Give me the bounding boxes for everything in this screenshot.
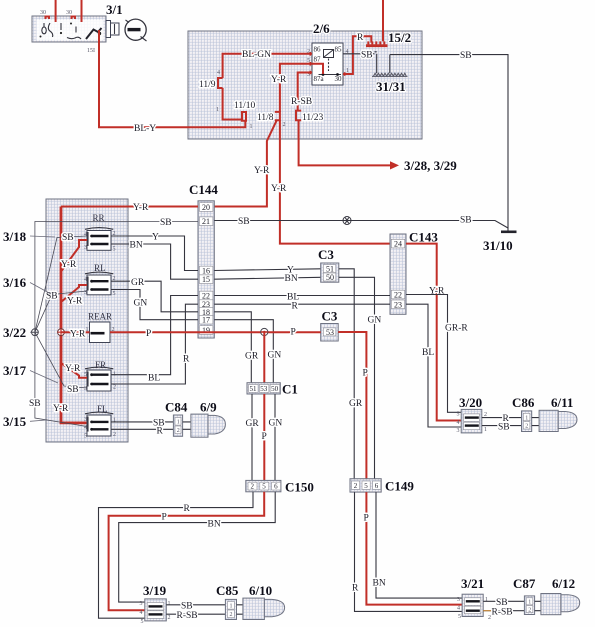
junction P (circled) xyxy=(261,328,268,335)
wire Y-R C143 24 to 3/20 xyxy=(406,244,461,421)
svg-text:22: 22 xyxy=(394,291,402,300)
svg-text:C150: C150 xyxy=(285,480,314,495)
switch FR (3/17) xyxy=(85,367,113,391)
svg-text:15: 15 xyxy=(202,275,210,284)
svg-text:FL: FL xyxy=(97,404,108,414)
svg-text:2: 2 xyxy=(525,424,528,430)
C144 pin 16 xyxy=(199,266,213,275)
C1 pin 50 xyxy=(270,385,280,394)
C150 pin 6 xyxy=(272,482,281,491)
svg-text:6/9: 6/9 xyxy=(200,400,217,415)
svg-text:17: 17 xyxy=(202,316,210,325)
wire BN C149 6 to 3/21 xyxy=(376,492,462,598)
C3 connector (pin 53) xyxy=(321,324,339,342)
wire SB splice to FR xyxy=(35,332,87,388)
svg-text:4: 4 xyxy=(217,70,220,76)
fuse 11/9 xyxy=(218,78,223,88)
C150 pin 5 xyxy=(260,482,269,491)
ignition switch 3/1 body xyxy=(32,16,106,42)
svg-text:Y-R: Y-R xyxy=(133,203,149,213)
wire BN C150 6 to 3/19 xyxy=(119,492,276,602)
C1 pin 51 xyxy=(249,385,259,394)
svg-text:P: P xyxy=(291,328,296,338)
svg-text:C143: C143 xyxy=(409,230,438,245)
svg-text:3: 3 xyxy=(84,245,87,251)
svg-text:Y-R: Y-R xyxy=(271,75,287,85)
svg-text:87: 87 xyxy=(314,56,322,64)
svg-text:P: P xyxy=(162,513,167,523)
svg-text:C1: C1 xyxy=(282,382,298,397)
svg-text:5: 5 xyxy=(141,619,144,625)
wire BL C144 22 to C143 22 xyxy=(214,295,390,297)
wire battery feed into ignition (right) xyxy=(81,0,83,22)
ground 31/31 xyxy=(372,73,408,76)
svg-text:SB: SB xyxy=(67,385,79,395)
svg-text:87a: 87a xyxy=(314,75,325,83)
wire BL-Y from ignition 15 to fuse 11/10 xyxy=(99,30,245,127)
svg-text:3/1: 3/1 xyxy=(106,2,123,17)
red trunk Y-R in left box xyxy=(61,207,88,423)
svg-text:3/20: 3/20 xyxy=(459,395,482,410)
svg-text:3/19: 3/19 xyxy=(143,583,167,598)
svg-text:SB: SB xyxy=(29,399,41,409)
RR pin numbers xyxy=(84,231,116,253)
wire GN C1 to C150 6 xyxy=(274,394,276,480)
wire BL C143 23 to 3/20 xyxy=(406,304,461,427)
svg-text:SB: SB xyxy=(498,423,510,433)
R-SB orange segment xyxy=(483,610,494,612)
svg-text:5: 5 xyxy=(113,291,116,297)
svg-text:GR: GR xyxy=(245,352,259,362)
svg-text:2: 2 xyxy=(177,428,180,434)
C149 pin 5 xyxy=(362,481,370,490)
svg-text:P: P xyxy=(363,369,368,379)
ignition switch 3/1 internal contacts xyxy=(40,23,102,40)
ground 31/10 xyxy=(501,231,517,234)
svg-text:BL-GN: BL-GN xyxy=(242,50,271,60)
svg-text:2: 2 xyxy=(168,615,171,621)
ignition connector tab xyxy=(106,21,119,38)
key symbol xyxy=(125,19,146,41)
svg-text:R-SB: R-SB xyxy=(177,611,198,621)
svg-text:24: 24 xyxy=(394,240,402,249)
wire Y-R fuse 11/8 to C143 pin24 xyxy=(280,120,390,243)
svg-text:4: 4 xyxy=(457,606,460,612)
wire GN C144 17 to C1 50 xyxy=(214,320,273,383)
fuse/relay central box (stippled) xyxy=(188,31,422,139)
wire P C1 to C150 5 xyxy=(263,394,265,480)
C143 pin 24 xyxy=(391,239,404,248)
svg-text:2: 2 xyxy=(113,432,116,438)
3/19 pin numbers xyxy=(140,601,171,625)
relay 2/6 pin numbers xyxy=(307,49,349,78)
svg-text:2: 2 xyxy=(113,385,116,391)
svg-text:BN: BN xyxy=(208,520,221,530)
svg-text:85: 85 xyxy=(335,46,343,54)
switch 3/20 xyxy=(461,409,482,433)
wire fuse 11/9 to fuse 11/10 xyxy=(223,88,242,120)
wire BL-GN relay 86 to fuse 11/9 xyxy=(223,54,312,78)
links C87 to 6/12 xyxy=(535,601,541,610)
wire R FR to C144 23 xyxy=(111,304,198,384)
svg-text:BL: BL xyxy=(148,374,160,384)
svg-text:5: 5 xyxy=(364,482,368,490)
svg-text:15I: 15I xyxy=(87,48,95,54)
svg-text:REAR: REAR xyxy=(88,312,112,322)
svg-text:6: 6 xyxy=(375,482,379,490)
switch RR (3/18) xyxy=(85,228,113,251)
wire P C149 5 to 3/21 xyxy=(366,492,462,604)
motor 6/10 xyxy=(243,598,285,619)
motor 6/9 xyxy=(191,414,226,437)
RL pin numbers xyxy=(84,276,116,297)
svg-text:C87: C87 xyxy=(513,576,536,591)
svg-text:BN: BN xyxy=(373,579,386,589)
svg-text:4: 4 xyxy=(84,232,87,238)
wire GR-R C143 22 to 3/20 xyxy=(406,295,461,413)
svg-text:P: P xyxy=(262,432,267,442)
svg-text:86: 86 xyxy=(314,46,322,54)
switch 3/21 xyxy=(462,594,483,616)
ignition terminal clip 30 (right) xyxy=(72,17,76,20)
C144 pin 23 xyxy=(199,300,213,309)
wire SB splice to RR xyxy=(35,236,87,332)
wire GR C3 51 to C149 2 xyxy=(339,269,354,479)
wire Y-R trunk to C144 20 xyxy=(61,206,198,208)
wire R C150 2 to 3/19 xyxy=(99,492,254,618)
svg-text:SB: SB xyxy=(46,292,58,302)
svg-text:R-SB: R-SB xyxy=(291,97,312,107)
wire SB C144 21 to ground 31/10 xyxy=(214,221,508,229)
wire R C144 23 to C143 23 xyxy=(214,303,390,305)
svg-text:53: 53 xyxy=(260,385,268,393)
svg-text:5: 5 xyxy=(458,614,461,620)
wire Y-R fuse 11/8 to C144 pin20 xyxy=(214,120,276,206)
wire Y RR to C144 16 xyxy=(111,236,198,271)
svg-text:Y-R: Y-R xyxy=(70,330,86,340)
junction Y-R trunk splice xyxy=(58,329,65,336)
svg-text:R: R xyxy=(184,504,191,514)
svg-text:11/8: 11/8 xyxy=(257,113,274,123)
svg-text:2: 2 xyxy=(230,612,233,618)
motor 6/11 xyxy=(539,410,577,431)
leader 3/16 xyxy=(30,283,51,295)
wire GR RL to C144 18 xyxy=(111,281,198,312)
wire SB splice to FL xyxy=(35,332,87,426)
svg-text:2: 2 xyxy=(354,482,358,490)
3/20 pin numbers xyxy=(457,412,488,435)
wire R relay 30 to fuse 15/2 xyxy=(343,36,371,74)
wire Y-R relay 87 to fuse 11/8 xyxy=(280,64,312,112)
svg-text:4: 4 xyxy=(457,420,460,426)
leader 3/17 xyxy=(30,371,58,384)
svg-text:20: 20 xyxy=(202,203,210,212)
leader 3/22 xyxy=(30,331,32,333)
svg-text:1: 1 xyxy=(528,600,531,606)
svg-text:BN: BN xyxy=(130,241,143,251)
C144 connector column xyxy=(198,201,214,338)
svg-text:1: 1 xyxy=(168,601,171,607)
wire SB to ground 31/10 (upper run) xyxy=(390,55,508,231)
svg-text:BL-Y: BL-Y xyxy=(134,124,156,134)
svg-text:4: 4 xyxy=(84,277,87,283)
svg-text:51: 51 xyxy=(250,385,258,393)
svg-text:C85: C85 xyxy=(216,583,239,598)
wire BL FR to C144 22 xyxy=(111,296,198,375)
relay pin clips xyxy=(310,52,344,76)
C143 pin 22 xyxy=(391,290,404,299)
svg-text:31/10: 31/10 xyxy=(483,238,513,253)
svg-text:3/15: 3/15 xyxy=(3,414,27,429)
links C85 to 6/10 xyxy=(237,605,243,614)
C143 pin 23 xyxy=(391,300,404,309)
wire SB 3/21 to C87 xyxy=(483,600,524,602)
motor 6/12 xyxy=(541,594,580,615)
svg-text:Y-R: Y-R xyxy=(254,166,270,176)
wire R 3/20 to C86 xyxy=(482,417,522,419)
3/21 pin numbers xyxy=(457,597,491,621)
svg-text:30: 30 xyxy=(66,10,72,16)
svg-text:SB: SB xyxy=(181,602,193,612)
svg-text:1: 1 xyxy=(113,418,116,424)
svg-text:R: R xyxy=(352,584,359,594)
svg-text:3/18: 3/18 xyxy=(3,229,27,244)
svg-text:3: 3 xyxy=(457,597,460,603)
svg-text:R: R xyxy=(292,302,299,312)
wire P REAR to C3 53 xyxy=(110,331,321,333)
svg-text:1: 1 xyxy=(484,427,487,433)
wire Y-R branch to RL xyxy=(61,285,87,302)
C144 pin 22 xyxy=(199,291,213,300)
svg-text:C149: C149 xyxy=(385,479,414,494)
svg-text:Y-R: Y-R xyxy=(271,184,287,194)
svg-text:Y-R: Y-R xyxy=(67,297,83,307)
wire Y C144 16 to C3 51 xyxy=(214,269,320,271)
svg-text:50: 50 xyxy=(326,273,334,282)
wire R-SB 3/19 to C85 xyxy=(166,613,225,615)
svg-text:C3: C3 xyxy=(318,247,334,262)
svg-text:P: P xyxy=(146,329,151,339)
svg-text:3: 3 xyxy=(84,417,87,423)
svg-text:3: 3 xyxy=(457,428,460,434)
svg-text:R: R xyxy=(183,355,190,365)
svg-text:2: 2 xyxy=(283,122,286,128)
svg-text:GN: GN xyxy=(269,419,283,429)
C150 pin 2 xyxy=(248,482,257,491)
switch 3/19 xyxy=(145,599,167,621)
svg-text:5: 5 xyxy=(262,483,266,491)
svg-text:1: 1 xyxy=(216,107,219,113)
svg-text:C84: C84 xyxy=(165,400,188,415)
fuse 11/23 xyxy=(296,111,301,121)
relay 2/6 body xyxy=(312,43,343,85)
wire R-SB relay 87a to fuse 11/23 xyxy=(298,73,312,111)
switch RL (3/16) xyxy=(85,272,113,295)
svg-text:SB: SB xyxy=(160,218,172,228)
svg-text:C3: C3 xyxy=(322,309,338,324)
splice node SB (circled) xyxy=(32,329,39,336)
C85 connector xyxy=(225,599,236,619)
wire SB splice to C144 21 xyxy=(35,222,198,333)
FL pin numbers xyxy=(84,417,116,440)
svg-text:C86: C86 xyxy=(512,395,535,410)
wire fuse 11/23 to 3/28,3/29 arrow xyxy=(299,120,390,165)
wire SB 3/20 to C86 xyxy=(482,425,522,427)
wire Y-R branch to RR xyxy=(61,240,87,272)
fuse 11/8 xyxy=(275,112,280,120)
wire GN RL to C144 17 xyxy=(111,290,198,320)
C3 connector (pins 51/50) xyxy=(321,263,339,282)
svg-text:5: 5 xyxy=(84,434,87,440)
C143 connector column xyxy=(390,234,406,314)
svg-text:6/12: 6/12 xyxy=(552,576,575,591)
svg-text:2/6: 2/6 xyxy=(313,21,330,36)
svg-text:BL: BL xyxy=(422,348,434,358)
svg-text:3/22: 3/22 xyxy=(3,325,26,340)
C150 connector xyxy=(246,480,281,491)
wire R C149 2 to 3/21 xyxy=(355,492,463,611)
svg-text:31/31: 31/31 xyxy=(376,79,406,94)
svg-text:3/28, 3/29: 3/28, 3/29 xyxy=(404,158,457,173)
arrowhead to 3/28,3/29 xyxy=(390,161,399,169)
svg-text:2: 2 xyxy=(251,483,255,491)
svg-text:16: 16 xyxy=(202,267,210,276)
svg-text:GN: GN xyxy=(134,299,148,309)
wire Y-R junction to REAR xyxy=(61,331,90,333)
C149 pin 2 xyxy=(352,481,360,490)
svg-text:11/23: 11/23 xyxy=(302,113,324,123)
svg-text:3/17: 3/17 xyxy=(3,363,27,378)
C144 pin 20 xyxy=(199,203,213,212)
fuse 11/10 xyxy=(241,112,246,121)
svg-text:C144: C144 xyxy=(189,182,218,197)
svg-text:SB: SB xyxy=(361,51,373,61)
svg-text:3: 3 xyxy=(140,601,143,607)
switch REAR (3/22) xyxy=(90,322,111,343)
svg-text:30: 30 xyxy=(335,75,343,83)
svg-text:SB: SB xyxy=(496,598,508,608)
C3 pin 51 xyxy=(323,265,336,274)
fuse 15/2 xyxy=(366,41,388,47)
svg-text:Y: Y xyxy=(152,233,159,243)
wire R-SB 3/21 to C87 xyxy=(483,610,524,612)
links C86 to 6/11 xyxy=(532,418,539,426)
wire SB relay 85 to ground 31/31 xyxy=(343,52,377,73)
svg-text:50: 50 xyxy=(271,385,279,393)
C1 connector xyxy=(247,383,280,394)
C144 pin 15 xyxy=(199,275,213,284)
svg-text:GR: GR xyxy=(131,278,145,288)
svg-text:Y-R: Y-R xyxy=(61,260,77,270)
svg-text:6: 6 xyxy=(274,483,278,491)
wire battery feed into ignition (left) xyxy=(55,0,57,22)
svg-text:3: 3 xyxy=(84,386,87,392)
svg-text:6/10: 6/10 xyxy=(249,583,272,598)
svg-text:3/16: 3/16 xyxy=(3,275,27,290)
wire GR C144 18 to C1 51 xyxy=(214,312,251,383)
C149 connector xyxy=(350,479,381,492)
svg-text:SB: SB xyxy=(238,217,250,227)
C1 pin 53 xyxy=(259,385,269,394)
wire P junction to C1 53 xyxy=(263,332,265,383)
wire GN C3 50 to C149 6 xyxy=(339,277,375,478)
wire SB 3/19 to C85 xyxy=(166,604,225,606)
svg-text:GR: GR xyxy=(246,419,260,429)
svg-text:5: 5 xyxy=(457,412,460,418)
svg-text:Y-R: Y-R xyxy=(65,364,81,374)
svg-text:4: 4 xyxy=(140,610,143,616)
svg-text:1: 1 xyxy=(177,420,180,426)
svg-text:53: 53 xyxy=(326,328,334,337)
svg-text:5: 5 xyxy=(113,247,116,253)
svg-text:R: R xyxy=(357,33,364,43)
wire BN RR to C144 15 xyxy=(111,244,198,279)
svg-text:FR: FR xyxy=(95,360,106,370)
svg-text:19: 19 xyxy=(202,326,210,335)
C144 pin 21 xyxy=(199,217,213,226)
C84 connector xyxy=(173,415,182,436)
svg-text:21: 21 xyxy=(202,217,210,226)
svg-text:GN: GN xyxy=(268,351,282,361)
C87 connector xyxy=(524,596,534,615)
svg-text:1: 1 xyxy=(230,604,233,610)
wire P C3 53 to C149 5 xyxy=(338,332,366,479)
svg-text:SB: SB xyxy=(460,216,472,226)
wire Y-R branch to FR xyxy=(61,363,87,378)
wire BN C144 15 to C3 50 xyxy=(214,277,320,279)
svg-text:11/10: 11/10 xyxy=(234,101,256,111)
links C84 to 6/9 xyxy=(183,422,191,429)
svg-text:SB: SB xyxy=(62,233,74,243)
C3 pin 53 xyxy=(323,328,336,337)
C144 pin 18 xyxy=(199,308,213,317)
C144 pin 17 xyxy=(199,315,213,324)
svg-text:SB: SB xyxy=(460,51,472,61)
svg-text:3/21: 3/21 xyxy=(461,576,484,591)
svg-text:23: 23 xyxy=(394,300,402,309)
svg-text:1: 1 xyxy=(485,597,488,603)
wire battery feed to fuse 15/2 xyxy=(382,0,384,41)
wire SB splice to RL xyxy=(35,291,87,332)
C3 pin 50 xyxy=(323,273,336,282)
left switch box (stippled) xyxy=(46,199,128,442)
C149 pin 6 xyxy=(373,481,381,490)
wire SB FL to C84 xyxy=(111,421,173,423)
splice symbol on SB run xyxy=(343,217,351,225)
svg-text:BN: BN xyxy=(285,274,298,284)
wire R FL to C84 xyxy=(111,428,173,430)
leader 3/15 xyxy=(30,420,46,421)
C144 pin 19 xyxy=(199,326,213,335)
svg-text:2: 2 xyxy=(528,608,531,614)
svg-text:GR-R: GR-R xyxy=(445,324,468,334)
svg-text:15/2: 15/2 xyxy=(388,30,411,45)
svg-text:1: 1 xyxy=(525,415,528,421)
svg-text:1: 1 xyxy=(250,124,253,130)
svg-text:Y-R: Y-R xyxy=(53,404,69,414)
wire GR C1 to C150 2 xyxy=(251,394,253,480)
wire P C150 5 to 3/19 xyxy=(109,492,265,610)
relay 2/6 terminal labels xyxy=(314,46,343,84)
REAR pin numbers xyxy=(86,327,115,333)
switch FL (3/15) xyxy=(85,412,113,436)
svg-text:R: R xyxy=(157,426,164,436)
C86 connector xyxy=(522,411,532,432)
FR pin numbers xyxy=(84,372,116,393)
svg-text:R-SB: R-SB xyxy=(492,608,513,618)
svg-text:GN: GN xyxy=(368,316,382,326)
leader 3/18 xyxy=(30,236,55,237)
